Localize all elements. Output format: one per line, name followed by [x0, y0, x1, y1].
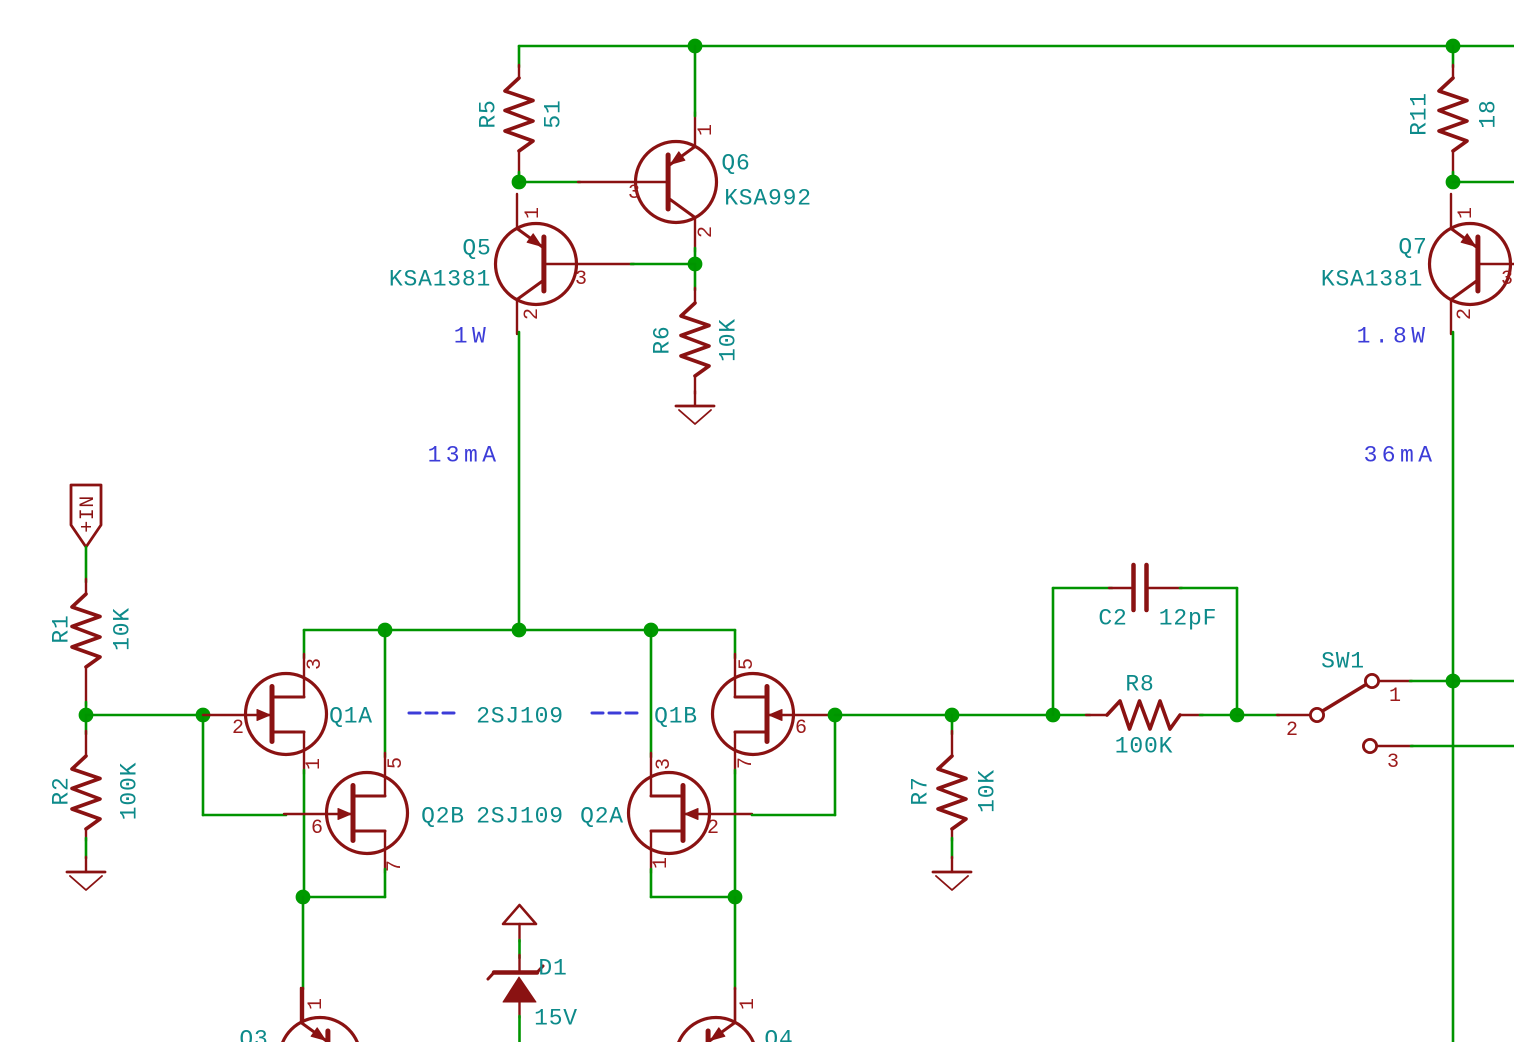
svg-text:15V: 15V — [534, 1005, 578, 1031]
svg-text:Q1B: Q1B — [654, 703, 698, 729]
svg-text:3: 3 — [304, 658, 327, 670]
wire — [1052, 588, 1055, 715]
svg-text:2SJ109: 2SJ109 — [476, 703, 564, 729]
svg-text:R6: R6 — [649, 325, 675, 354]
svg-text:1.8W: 1.8W — [1357, 323, 1430, 349]
svg-text:2SJ109: 2SJ109 — [476, 803, 564, 829]
dashed tie line right — [592, 712, 603, 715]
junction — [1446, 175, 1461, 190]
svg-text:2: 2 — [521, 308, 544, 320]
wire — [694, 264, 697, 290]
wire — [951, 715, 954, 734]
wire — [650, 869, 653, 897]
svg-text:7: 7 — [735, 757, 758, 769]
resistor R6 — [694, 288, 696, 303]
wire — [1180, 587, 1237, 590]
wire — [1453, 181, 1514, 184]
svg-text:Q7: Q7 — [1398, 234, 1427, 260]
svg-text:R5: R5 — [475, 99, 501, 128]
transistor Q3 — [302, 988, 304, 1021]
ground — [694, 391, 696, 406]
svg-text:3: 3 — [1501, 268, 1513, 291]
svg-text:1: 1 — [305, 998, 328, 1010]
svg-text:R8: R8 — [1125, 671, 1154, 697]
svg-text:1: 1 — [1455, 207, 1478, 219]
capacitor C2 — [1109, 587, 1131, 589]
power flag — [503, 905, 536, 924]
wire — [1200, 714, 1237, 717]
wire — [518, 46, 521, 67]
svg-text:10K: 10K — [974, 769, 1000, 813]
wire JFET drain rail — [304, 629, 735, 632]
junction — [828, 708, 843, 723]
svg-text:1: 1 — [522, 207, 545, 219]
wire — [1452, 172, 1455, 182]
svg-text:5: 5 — [385, 757, 408, 769]
junction — [378, 623, 393, 638]
svg-text:10K: 10K — [109, 607, 135, 651]
wire — [951, 838, 954, 858]
svg-text:Q1A: Q1A — [329, 703, 373, 729]
svg-text:12pF: 12pF — [1159, 605, 1217, 631]
junction — [688, 257, 703, 272]
transistor Q4 — [734, 988, 736, 1021]
junction — [296, 890, 311, 905]
svg-text:KSA1381: KSA1381 — [389, 266, 491, 292]
wire — [518, 1016, 521, 1042]
svg-text:36mA: 36mA — [1364, 442, 1437, 468]
wire — [834, 715, 837, 815]
wire — [752, 814, 835, 817]
dashed tie line left — [409, 712, 420, 715]
svg-text:R7: R7 — [907, 776, 933, 805]
transistor Q7 — [1430, 224, 1511, 305]
junction — [644, 623, 659, 638]
wire — [303, 630, 306, 658]
svg-text:5: 5 — [736, 658, 759, 670]
junction — [79, 708, 94, 723]
wire — [694, 248, 697, 264]
svg-text:C2: C2 — [1098, 605, 1127, 631]
switch SW1 — [1277, 714, 1310, 716]
resistor R7 — [951, 731, 953, 756]
svg-text:R1: R1 — [48, 614, 74, 643]
svg-text:2: 2 — [1286, 719, 1298, 742]
svg-text:SW1: SW1 — [1321, 648, 1365, 674]
svg-text:3: 3 — [1387, 751, 1399, 774]
transistor Q1A — [246, 674, 327, 755]
svg-text:R11: R11 — [1406, 92, 1432, 136]
wire — [85, 547, 88, 582]
wire — [518, 172, 521, 182]
diode D1 — [518, 955, 520, 972]
svg-text:3: 3 — [653, 758, 676, 770]
svg-text:D1: D1 — [538, 955, 567, 981]
junction — [1230, 708, 1245, 723]
wire — [86, 714, 203, 717]
ground — [85, 857, 87, 872]
svg-text:6: 6 — [795, 717, 807, 740]
wire — [835, 714, 1090, 717]
svg-text:3: 3 — [628, 182, 640, 205]
svg-text:2: 2 — [232, 717, 244, 740]
port +IN — [71, 485, 101, 547]
wire — [1452, 332, 1455, 1042]
svg-text:100K: 100K — [116, 762, 142, 820]
wire — [85, 838, 88, 858]
wire — [1053, 587, 1112, 590]
wire — [694, 46, 697, 116]
resistor R2 — [85, 731, 87, 756]
svg-text:1: 1 — [650, 857, 673, 869]
junction — [1446, 674, 1461, 689]
wire — [202, 715, 205, 815]
wire — [650, 630, 653, 757]
junction — [728, 890, 743, 905]
svg-text:+IN: +IN — [77, 495, 100, 533]
svg-text:1: 1 — [695, 124, 718, 136]
wire — [303, 896, 385, 899]
junction — [945, 708, 960, 723]
wire VCC top rail — [519, 45, 1514, 48]
wire — [518, 940, 521, 958]
wire — [631, 263, 695, 266]
resistor R5 — [518, 65, 520, 78]
wire — [1453, 680, 1514, 683]
wire — [1236, 588, 1239, 715]
junction — [688, 39, 703, 54]
svg-text:1: 1 — [1389, 685, 1401, 708]
resistor R11 — [1452, 65, 1454, 78]
svg-text:Q3: Q3 — [239, 1026, 268, 1042]
svg-text:18: 18 — [1475, 99, 1501, 128]
wire — [651, 896, 735, 899]
svg-text:KSA992: KSA992 — [724, 185, 812, 211]
wire — [518, 332, 521, 630]
wire — [734, 630, 737, 658]
transistor Q1B — [713, 674, 794, 755]
svg-text:10K: 10K — [715, 318, 741, 362]
svg-text:R2: R2 — [48, 776, 74, 805]
wire — [203, 814, 286, 817]
wire — [734, 770, 737, 897]
wire — [302, 897, 305, 989]
wire — [734, 897, 737, 989]
svg-text:7: 7 — [384, 860, 407, 872]
svg-text:1: 1 — [303, 758, 326, 770]
transistor Q2A — [629, 773, 710, 854]
ground — [951, 857, 953, 872]
wire — [1410, 680, 1453, 683]
junction — [512, 623, 527, 638]
svg-text:Q2A: Q2A — [580, 803, 624, 829]
junction — [512, 175, 527, 190]
junction — [196, 708, 211, 723]
svg-text:2: 2 — [695, 226, 718, 238]
svg-text:3: 3 — [575, 268, 587, 291]
svg-text:Q4: Q4 — [764, 1026, 793, 1042]
svg-text:6: 6 — [311, 817, 323, 840]
svg-text:1W: 1W — [454, 323, 490, 349]
wire — [85, 702, 88, 715]
svg-text:100K: 100K — [1115, 733, 1173, 759]
wire — [384, 630, 387, 757]
junction — [1446, 39, 1461, 54]
svg-text:Q6: Q6 — [721, 150, 750, 176]
wire — [303, 770, 306, 897]
resistor R1 — [85, 579, 87, 594]
svg-text:2: 2 — [707, 817, 719, 840]
svg-text:1: 1 — [737, 998, 760, 1010]
svg-text:2: 2 — [1454, 308, 1477, 320]
wire — [519, 181, 580, 184]
svg-text:13mA: 13mA — [428, 442, 501, 468]
junction — [1046, 708, 1061, 723]
svg-text:Q2B: Q2B — [421, 803, 465, 829]
wire — [1452, 46, 1455, 67]
resistor R8 — [1086, 714, 1107, 716]
transistor Q2B — [327, 773, 408, 854]
svg-text:51: 51 — [540, 99, 566, 128]
svg-text:Q5: Q5 — [462, 235, 491, 261]
transistor Q5 — [496, 224, 577, 305]
svg-text:KSA1381: KSA1381 — [1321, 266, 1423, 292]
wire — [384, 869, 387, 897]
wire — [1237, 714, 1279, 717]
transistor Q6 — [636, 142, 717, 223]
wire — [85, 715, 88, 734]
wire — [1411, 745, 1514, 748]
